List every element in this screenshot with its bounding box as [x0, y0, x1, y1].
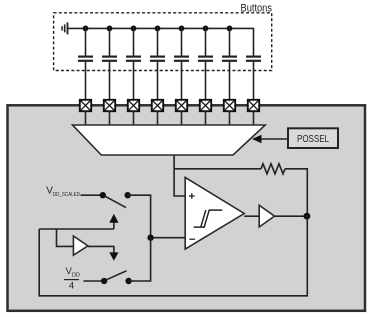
pad switch 8	[248, 100, 259, 111]
Buttons dashed enclosure	[54, 13, 272, 71]
node: rail junction 6	[203, 26, 209, 32]
node: rail junction 5	[179, 26, 185, 32]
capacitor button 4	[150, 28, 165, 100]
wire: pad 8 to mux	[253, 111, 255, 125]
wire: hysteresis feedback line	[174, 168, 261, 170]
analog mux	[73, 125, 266, 155]
wire: guard buffer output and down-arrow branch	[88, 246, 114, 253]
pad switch 2	[104, 100, 115, 111]
hysteresis glyph inside comparator	[194, 210, 223, 227]
wire: pad 7 to mux	[229, 111, 231, 125]
up arrow to VDD_SCALED switch	[109, 214, 118, 229]
node: rail junction 4	[155, 26, 161, 32]
POSSEL box	[288, 128, 338, 148]
wire: VDD/4 to switch	[83, 280, 104, 282]
capacitor button 5	[174, 28, 189, 100]
chip body (IC boundary)	[8, 105, 366, 310]
wire: top rail of button capacitors	[68, 28, 254, 56]
capacitor button 6	[198, 28, 213, 100]
capacitor button 3	[126, 28, 141, 100]
svg-text:POSSEL: POSSEL	[297, 134, 329, 145]
svg-text:DD_SCALED: DD_SCALED	[53, 192, 80, 198]
wire: mux output stem to comparator non-inverting input	[174, 155, 185, 196]
wire: VDD_SCALED to switch	[81, 194, 103, 196]
switch S1 (VDD_SCALED)	[100, 192, 131, 208]
node: rail junction 1	[83, 26, 89, 32]
pad switch 3	[128, 100, 139, 111]
pad switch 6	[200, 100, 211, 111]
switch S2 (VDD/4)	[101, 271, 132, 284]
wire: pad 2 to mux	[109, 111, 111, 125]
node: rail junction 2	[107, 26, 113, 32]
capacitor button 8	[246, 57, 261, 100]
svg-text:DD: DD	[72, 272, 80, 278]
wire: comparator output to buffer	[244, 215, 259, 217]
wire: S1 to inverting node	[128, 195, 151, 238]
node: output junction	[304, 213, 311, 220]
resistor (hysteresis)	[261, 164, 285, 174]
wire: pad 5 to mux	[181, 111, 183, 125]
node: inverting input junction	[147, 235, 153, 241]
pad switch 4	[152, 100, 163, 111]
node: rail junction 7	[227, 26, 233, 32]
wire: right vertical and bottom feedback rail	[39, 216, 307, 296]
ground (sensor common)	[62, 22, 67, 34]
svg-text:4: 4	[69, 280, 75, 291]
wire: resistor to output node	[285, 169, 307, 216]
capacitor button 2	[102, 28, 117, 100]
wire: buffer to output node	[275, 215, 308, 217]
wire: comparator inverting input	[151, 237, 186, 239]
svg-text:Buttons: Buttons	[241, 2, 273, 14]
wire: pad 3 to mux	[133, 111, 135, 125]
capacitor button 1	[78, 28, 93, 100]
output buffer	[259, 205, 274, 227]
wire: S2 to inverting node	[129, 238, 151, 281]
wire: pad 4 to mux	[157, 111, 159, 125]
pad switch 7	[224, 100, 235, 111]
pad switch 5	[176, 100, 187, 111]
guard buffer	[73, 236, 88, 255]
Buttons label	[241, 2, 273, 14]
label VDD/4	[64, 266, 80, 291]
wire: POSSEL select arrow	[252, 135, 288, 143]
capacitor button 7	[222, 28, 237, 100]
node: rail junction 3	[131, 26, 137, 32]
down arrow to VDD/4 switch	[109, 252, 118, 260]
pad switch 1	[80, 100, 91, 111]
wire: feedback to guard buffer input and up-arrow branch	[39, 229, 114, 246]
comparator U1	[185, 177, 244, 249]
label VDD_SCALED	[46, 186, 80, 198]
wire: pad 6 to mux	[205, 111, 207, 125]
wire: pad 1 to mux	[85, 111, 87, 125]
